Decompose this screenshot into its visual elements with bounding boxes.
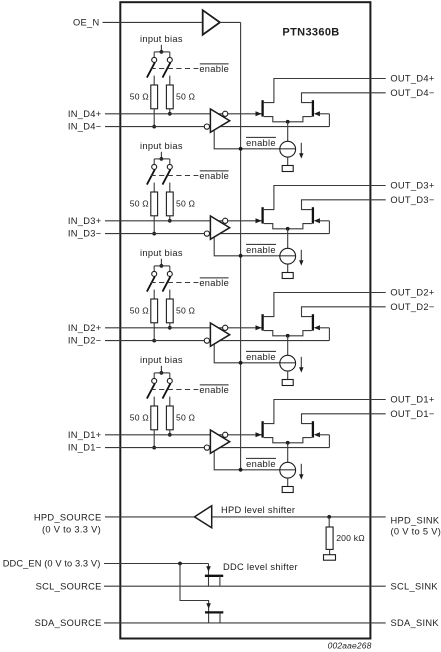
svg-text:50 Ω: 50 Ω bbox=[176, 199, 196, 209]
wire Q3 drain leg bbox=[219, 576, 221, 586]
svg-text:002aae268: 002aae268 bbox=[328, 641, 372, 651]
buffer OE_N (enable buffer) bbox=[203, 10, 220, 35]
svg-text:(0 V to 3.3 V): (0 V to 3.3 V) bbox=[42, 525, 101, 535]
svg-text:50 Ω: 50 Ω bbox=[130, 92, 150, 102]
enable dashed control line ch D3 bbox=[151, 175, 199, 177]
receiver buffer ch D3 bbox=[210, 216, 229, 239]
junction input bias ch D2 bbox=[160, 264, 164, 268]
wire input bias bar ch D1 bbox=[154, 372, 170, 374]
switch SW2 contact ch D1 bbox=[167, 378, 172, 383]
wire DDC_EN bbox=[104, 563, 209, 565]
junction R2/IN_D3+ bbox=[168, 219, 172, 223]
enable overline (current source) ch D2 bbox=[246, 350, 276, 352]
junction R2/IN_D1+ bbox=[168, 433, 172, 437]
wire SW1 to R1 ch D3 bbox=[153, 183, 155, 192]
switch SW2 lever ch D3 bbox=[163, 169, 171, 184]
current source I1 ch D3 bbox=[280, 248, 296, 264]
svg-text:input bias: input bias bbox=[140, 355, 183, 365]
receiver inverted output bubble ch D3 bbox=[223, 218, 228, 223]
svg-text:OUT_D1−: OUT_D1− bbox=[390, 409, 434, 419]
wire SW1 to R1 ch D4 bbox=[153, 76, 155, 85]
wire Q2 source ch D4 bbox=[288, 117, 312, 122]
svg-text:DDC_EN (0 V to 3.3 V): DDC_EN (0 V to 3.3 V) bbox=[3, 559, 101, 569]
wire input bias stub ch D3 bbox=[160, 152, 162, 159]
wire receiver enable tap ch D3 bbox=[214, 236, 295, 256]
buffer HPD level shifter bbox=[195, 506, 212, 528]
receiver inverted output bubble ch D1 bbox=[223, 432, 228, 437]
receiver inverted output bubble ch D2 bbox=[223, 325, 228, 330]
enable dashed control line ch D1 bbox=[151, 389, 199, 391]
transistor Q2 gate bar ch D2 bbox=[312, 314, 314, 330]
wire Q2 drain to OUT_D2&#8722; bbox=[302, 307, 386, 317]
junction input bias ch D3 bbox=[160, 157, 164, 161]
transistor Q1 gate bar ch D1 bbox=[261, 421, 263, 437]
switch SW1 contact ch D2 bbox=[152, 271, 157, 276]
wire gate Q2 drop ch D3 bbox=[328, 221, 330, 234]
chip outline box PTN3360B bbox=[120, 2, 370, 638]
arrow into Q2 gate ch D3 bbox=[314, 218, 320, 223]
wire SW2 to R2 ch D2 bbox=[169, 290, 171, 299]
junction R1/IN_D4- bbox=[152, 125, 156, 129]
receiver buffer ch D4 bbox=[210, 109, 229, 132]
arrow into Q1 gate ch D1 bbox=[256, 432, 262, 437]
receiver inverting input bubble ch D3 bbox=[204, 231, 209, 236]
wire to switch SW1 ch D1 bbox=[153, 373, 155, 379]
current direction arrow ch D4 bbox=[300, 143, 302, 155]
enable dashed control line ch D4 bbox=[151, 68, 199, 70]
svg-text:SCL_SINK: SCL_SINK bbox=[391, 581, 439, 591]
wire HPD bbox=[105, 516, 386, 518]
wire HPD to R3 bbox=[328, 517, 330, 527]
junction enable line ch D3 bbox=[239, 254, 243, 258]
current source I1 ch D1 bbox=[280, 462, 296, 478]
wire Q1 source ch D2 bbox=[264, 331, 288, 336]
wire Q2 source ch D1 bbox=[288, 438, 312, 443]
junction tail node ch D3 bbox=[286, 227, 290, 231]
switch SW1 lever ch D1 bbox=[147, 383, 155, 398]
current source I1 ch D2 bbox=[280, 355, 296, 371]
wire R1 to IN_D4- ch D4 bbox=[153, 109, 155, 127]
receiver inverting input bubble ch D1 bbox=[204, 445, 209, 450]
wire input bias stub ch D4 bbox=[160, 45, 162, 52]
junction R1/IN_D3- bbox=[152, 232, 156, 236]
wire SW2 to R2 ch D1 bbox=[169, 397, 171, 406]
transistor Q1 gate bar ch D4 bbox=[261, 100, 263, 116]
resistor R2 50ohm ch D4 bbox=[166, 85, 173, 109]
wire DDC_EN to Q3 gate bbox=[208, 564, 210, 587]
arrow into Q2 gate ch D1 bbox=[314, 432, 320, 437]
wire SW1 to R1 ch D2 bbox=[153, 290, 155, 299]
enable overline (switches) ch D2 bbox=[200, 277, 229, 279]
current source I1 ch D4 bbox=[280, 141, 296, 157]
resistor R1 50ohm ch D4 bbox=[151, 85, 158, 109]
wire to switch SW1 ch D3 bbox=[153, 159, 155, 165]
transistor Q2 gate bar ch D3 bbox=[312, 207, 314, 223]
wire gate Q2 drop ch D1 bbox=[328, 435, 330, 448]
svg-text:50 Ω: 50 Ω bbox=[176, 413, 196, 423]
junction tail node ch D1 bbox=[286, 441, 290, 445]
svg-text:50 Ω: 50 Ω bbox=[176, 306, 196, 316]
wire tail to current source ch D2 bbox=[287, 336, 289, 356]
junction R1/IN_D1- bbox=[152, 446, 156, 450]
junction tail node ch D4 bbox=[286, 120, 290, 124]
svg-text:OE_N: OE_N bbox=[73, 17, 100, 27]
wire Q2 source ch D3 bbox=[288, 224, 312, 229]
wire Q1 drain to OUT_D4+ bbox=[264, 79, 386, 103]
switch SW2 contact ch D4 bbox=[167, 57, 172, 62]
svg-text:OUT_D3−: OUT_D3− bbox=[390, 195, 434, 205]
transistor Q2 gate bar ch D1 bbox=[312, 421, 314, 437]
wire R1 to IN_D3- ch D3 bbox=[153, 216, 155, 234]
wire to switch SW1 ch D2 bbox=[153, 266, 155, 272]
wire tail to current source ch D3 bbox=[287, 229, 289, 249]
wire IN_D1+ to gate Q1 bbox=[105, 434, 262, 436]
svg-text:50 Ω: 50 Ω bbox=[130, 413, 150, 423]
arrow into Q1 gate ch D4 bbox=[256, 111, 262, 116]
svg-text:(0 V to 5 V): (0 V to 5 V) bbox=[391, 527, 441, 537]
resistor R2 50ohm ch D1 bbox=[166, 406, 173, 430]
wire IN_D2+ to gate Q1 bbox=[105, 327, 262, 329]
wire IN_D1- / feedback to gate Q2 bbox=[105, 447, 329, 449]
wire SCL bbox=[104, 585, 386, 587]
switch SW2 contact ch D2 bbox=[167, 271, 172, 276]
svg-text:IN_D1−: IN_D1− bbox=[68, 443, 102, 453]
arrow into Q1 gate ch D3 bbox=[256, 218, 262, 223]
resistor R1 50ohm ch D3 bbox=[151, 192, 158, 216]
receiver inverted output bubble ch D4 bbox=[223, 111, 228, 116]
negative rail terminal ch D4 bbox=[282, 166, 293, 172]
wire OE_N input bbox=[103, 21, 203, 23]
svg-text:input bias: input bias bbox=[140, 141, 183, 151]
wire R2 to IN_D3+ ch D3 bbox=[169, 216, 171, 221]
resistor R1 50ohm ch D2 bbox=[151, 299, 158, 323]
wire to switch SW2 ch D1 bbox=[169, 373, 171, 379]
enable overline (current source) ch D3 bbox=[246, 243, 276, 245]
wire Q1 source ch D1 bbox=[264, 438, 288, 443]
junction DDC_EN bbox=[178, 562, 182, 566]
svg-text:input bias: input bias bbox=[140, 34, 183, 44]
switch SW1 contact ch D1 bbox=[152, 378, 157, 383]
wire input bias stub ch D2 bbox=[160, 259, 162, 266]
svg-text:IN_D1+: IN_D1+ bbox=[68, 430, 102, 440]
svg-text:enable: enable bbox=[246, 138, 276, 148]
wire current source to rail ch D3 bbox=[287, 264, 289, 272]
wire Q2 source ch D2 bbox=[288, 331, 312, 336]
wire to switch SW1 ch D4 bbox=[153, 52, 155, 58]
wire input bias bar ch D4 bbox=[154, 51, 170, 53]
switch SW2 contact ch D3 bbox=[167, 164, 172, 169]
wire R1 to IN_D2- ch D2 bbox=[153, 323, 155, 341]
switch SW2 lever ch D4 bbox=[163, 62, 171, 77]
receiver buffer ch D2 bbox=[210, 323, 229, 346]
wire tail to current source ch D1 bbox=[287, 443, 289, 463]
arrow into Q2 gate ch D2 bbox=[314, 325, 320, 330]
transistor Q2 gate bar ch D4 bbox=[312, 100, 314, 116]
wire current source to rail ch D4 bbox=[287, 157, 289, 165]
svg-text:50 Ω: 50 Ω bbox=[176, 92, 196, 102]
wire Q2 gate lead ch D4 bbox=[319, 113, 330, 115]
arrow into Q2 gate ch D4 bbox=[314, 111, 320, 116]
wire Q1 source ch D4 bbox=[264, 117, 288, 122]
wire R2 to IN_D2+ ch D2 bbox=[169, 323, 171, 328]
wire to switch SW2 ch D3 bbox=[169, 159, 171, 165]
wire Q2 drain to OUT_D4&#8722; bbox=[302, 93, 386, 103]
switch SW1 lever ch D4 bbox=[147, 62, 155, 77]
svg-text:OUT_D2−: OUT_D2− bbox=[390, 302, 434, 312]
junction R2/IN_D4+ bbox=[168, 112, 172, 116]
switch SW1 contact ch D4 bbox=[152, 57, 157, 62]
svg-text:input bias: input bias bbox=[140, 248, 183, 258]
transistor Q1 gate bar ch D2 bbox=[261, 314, 263, 330]
wire input bias stub ch D1 bbox=[160, 366, 162, 373]
wire Q1 drain to OUT_D2+ bbox=[264, 293, 386, 317]
enable overline (current source) ch D1 bbox=[246, 457, 276, 459]
resistor R2 50ohm ch D3 bbox=[166, 192, 173, 216]
switch SW1 lever ch D3 bbox=[147, 169, 155, 184]
wire enable vertical distribution bbox=[240, 22, 242, 469]
svg-text:IN_D4+: IN_D4+ bbox=[68, 109, 102, 119]
transistor Q4 gate bar (SDA pass FET) bbox=[205, 611, 223, 613]
switch SW2 lever ch D2 bbox=[163, 276, 171, 291]
junction enable line ch D4 bbox=[239, 147, 243, 151]
wire Q4 drain leg bbox=[219, 612, 221, 623]
svg-text:SDA_SINK: SDA_SINK bbox=[391, 618, 440, 628]
wire gate Q2 drop ch D2 bbox=[328, 328, 330, 341]
wire to switch SW2 ch D4 bbox=[169, 52, 171, 58]
enable overline (switches) ch D3 bbox=[200, 170, 229, 172]
junction input bias ch D1 bbox=[160, 371, 164, 375]
svg-text:SDA_SOURCE: SDA_SOURCE bbox=[35, 618, 102, 628]
current direction arrow ch D1 bbox=[300, 464, 302, 476]
wire R2 to IN_D4+ ch D4 bbox=[169, 109, 171, 114]
wire R1 to IN_D1- ch D1 bbox=[153, 430, 155, 448]
ground terminal HPD bbox=[324, 555, 336, 561]
wire receiver enable tap ch D4 bbox=[214, 129, 295, 149]
svg-text:enable: enable bbox=[199, 385, 229, 395]
wire IN_D2- / feedback to gate Q2 bbox=[105, 340, 329, 342]
svg-text:enable: enable bbox=[199, 278, 229, 288]
current direction arrow ch D3 bbox=[300, 250, 302, 261]
svg-text:OUT_D4+: OUT_D4+ bbox=[390, 74, 434, 84]
junction R2/IN_D2+ bbox=[168, 326, 172, 330]
negative rail terminal ch D3 bbox=[282, 273, 293, 279]
wire Q2 drain to OUT_D1&#8722; bbox=[302, 414, 386, 424]
receiver inverting input bubble ch D2 bbox=[204, 338, 209, 343]
svg-text:IN_D4−: IN_D4− bbox=[68, 122, 102, 132]
svg-text:OUT_D1+: OUT_D1+ bbox=[390, 395, 434, 405]
wire input bias bar ch D3 bbox=[154, 158, 170, 160]
svg-text:enable: enable bbox=[246, 352, 276, 362]
resistor R3 200kohm bbox=[326, 527, 333, 549]
svg-text:enable: enable bbox=[199, 171, 229, 181]
wire Q2 gate lead ch D1 bbox=[319, 434, 330, 436]
wire Q2 drain to OUT_D3&#8722; bbox=[302, 200, 386, 210]
switch SW1 contact ch D3 bbox=[152, 164, 157, 169]
wire SW2 to R2 ch D4 bbox=[169, 76, 171, 85]
transistor Q3 gate bar (SCL pass FET) bbox=[205, 575, 223, 577]
svg-text:50 Ω: 50 Ω bbox=[130, 306, 150, 316]
arrow into Q1 gate ch D2 bbox=[256, 325, 262, 330]
wire enable from buffer output bbox=[220, 21, 241, 23]
junction enable line ch D2 bbox=[239, 361, 243, 365]
svg-text:OUT_D3+: OUT_D3+ bbox=[390, 181, 434, 191]
wire input bias bar ch D2 bbox=[154, 265, 170, 267]
svg-text:enable: enable bbox=[246, 459, 276, 469]
svg-text:50 Ω: 50 Ω bbox=[130, 199, 150, 209]
junction input bias ch D4 bbox=[160, 50, 164, 54]
junction R1/IN_D2- bbox=[152, 339, 156, 343]
wire SW2 to R2 ch D3 bbox=[169, 183, 171, 192]
wire IN_D4- / feedback to gate Q2 bbox=[105, 126, 329, 128]
junction tail node ch D2 bbox=[286, 334, 290, 338]
negative rail terminal ch D2 bbox=[282, 380, 293, 386]
wire gate Q2 drop ch D4 bbox=[328, 114, 330, 127]
wire IN_D4+ to gate Q1 bbox=[105, 113, 262, 115]
transistor Q1 gate bar ch D3 bbox=[261, 207, 263, 223]
wire SDA bbox=[104, 622, 386, 624]
svg-text:HPD_SOURCE: HPD_SOURCE bbox=[34, 513, 102, 523]
svg-text:200 kΩ: 200 kΩ bbox=[336, 533, 365, 543]
wire Q2 gate lead ch D3 bbox=[319, 220, 330, 222]
wire current source to rail ch D2 bbox=[287, 371, 289, 379]
wire current source to rail ch D1 bbox=[287, 478, 289, 486]
wire Q2 gate lead ch D2 bbox=[319, 327, 330, 329]
svg-text:PTN3360B: PTN3360B bbox=[282, 27, 339, 39]
resistor R1 50ohm ch D1 bbox=[151, 406, 158, 430]
svg-text:OUT_D4−: OUT_D4− bbox=[390, 88, 434, 98]
junction enable line ch D1 bbox=[239, 468, 243, 472]
wire R2 to IN_D1+ ch D1 bbox=[169, 430, 171, 435]
svg-text:DDC level shifter: DDC level shifter bbox=[223, 562, 298, 572]
enable overline (switches) ch D4 bbox=[200, 63, 229, 65]
wire SW1 to R1 ch D1 bbox=[153, 397, 155, 406]
negative rail terminal ch D1 bbox=[282, 487, 293, 493]
wire Q1 drain to OUT_D1+ bbox=[264, 400, 386, 424]
svg-text:enable: enable bbox=[199, 64, 229, 74]
wire tail to current source ch D4 bbox=[287, 122, 289, 142]
svg-text:IN_D3+: IN_D3+ bbox=[68, 216, 102, 226]
svg-text:IN_D2−: IN_D2− bbox=[68, 336, 102, 346]
wire Q1 source ch D3 bbox=[264, 224, 288, 229]
receiver inverting input bubble ch D4 bbox=[204, 124, 209, 129]
switch SW1 lever ch D2 bbox=[147, 276, 155, 291]
svg-text:enable: enable bbox=[246, 245, 276, 255]
wire Q1 drain to OUT_D3+ bbox=[264, 186, 386, 210]
svg-text:SCL_SOURCE: SCL_SOURCE bbox=[36, 581, 102, 591]
svg-text:IN_D2+: IN_D2+ bbox=[68, 323, 102, 333]
switch SW2 lever ch D1 bbox=[163, 383, 171, 398]
junction HPD/pulldown bbox=[327, 515, 331, 519]
current direction arrow ch D2 bbox=[300, 357, 302, 369]
enable overline (current source) ch D4 bbox=[246, 136, 276, 138]
wire R3 to ground terminal bbox=[329, 549, 331, 554]
wire DDC_EN to Q4 gate bbox=[180, 564, 209, 623]
svg-text:IN_D3−: IN_D3− bbox=[68, 229, 102, 239]
svg-text:OUT_D2+: OUT_D2+ bbox=[390, 288, 434, 298]
wire to switch SW2 ch D2 bbox=[169, 266, 171, 272]
wire receiver enable tap ch D1 bbox=[214, 450, 295, 470]
wire IN_D3+ to gate Q1 bbox=[105, 220, 262, 222]
svg-text:HPD_SINK: HPD_SINK bbox=[391, 516, 440, 526]
svg-text:HPD level shifter: HPD level shifter bbox=[221, 505, 295, 515]
wire receiver enable tap ch D2 bbox=[214, 343, 295, 363]
enable overline (switches) ch D1 bbox=[200, 384, 229, 386]
wire IN_D3- / feedback to gate Q2 bbox=[105, 233, 329, 235]
resistor R2 50ohm ch D2 bbox=[166, 299, 173, 323]
enable dashed control line ch D2 bbox=[151, 282, 199, 284]
receiver buffer ch D1 bbox=[210, 430, 229, 453]
